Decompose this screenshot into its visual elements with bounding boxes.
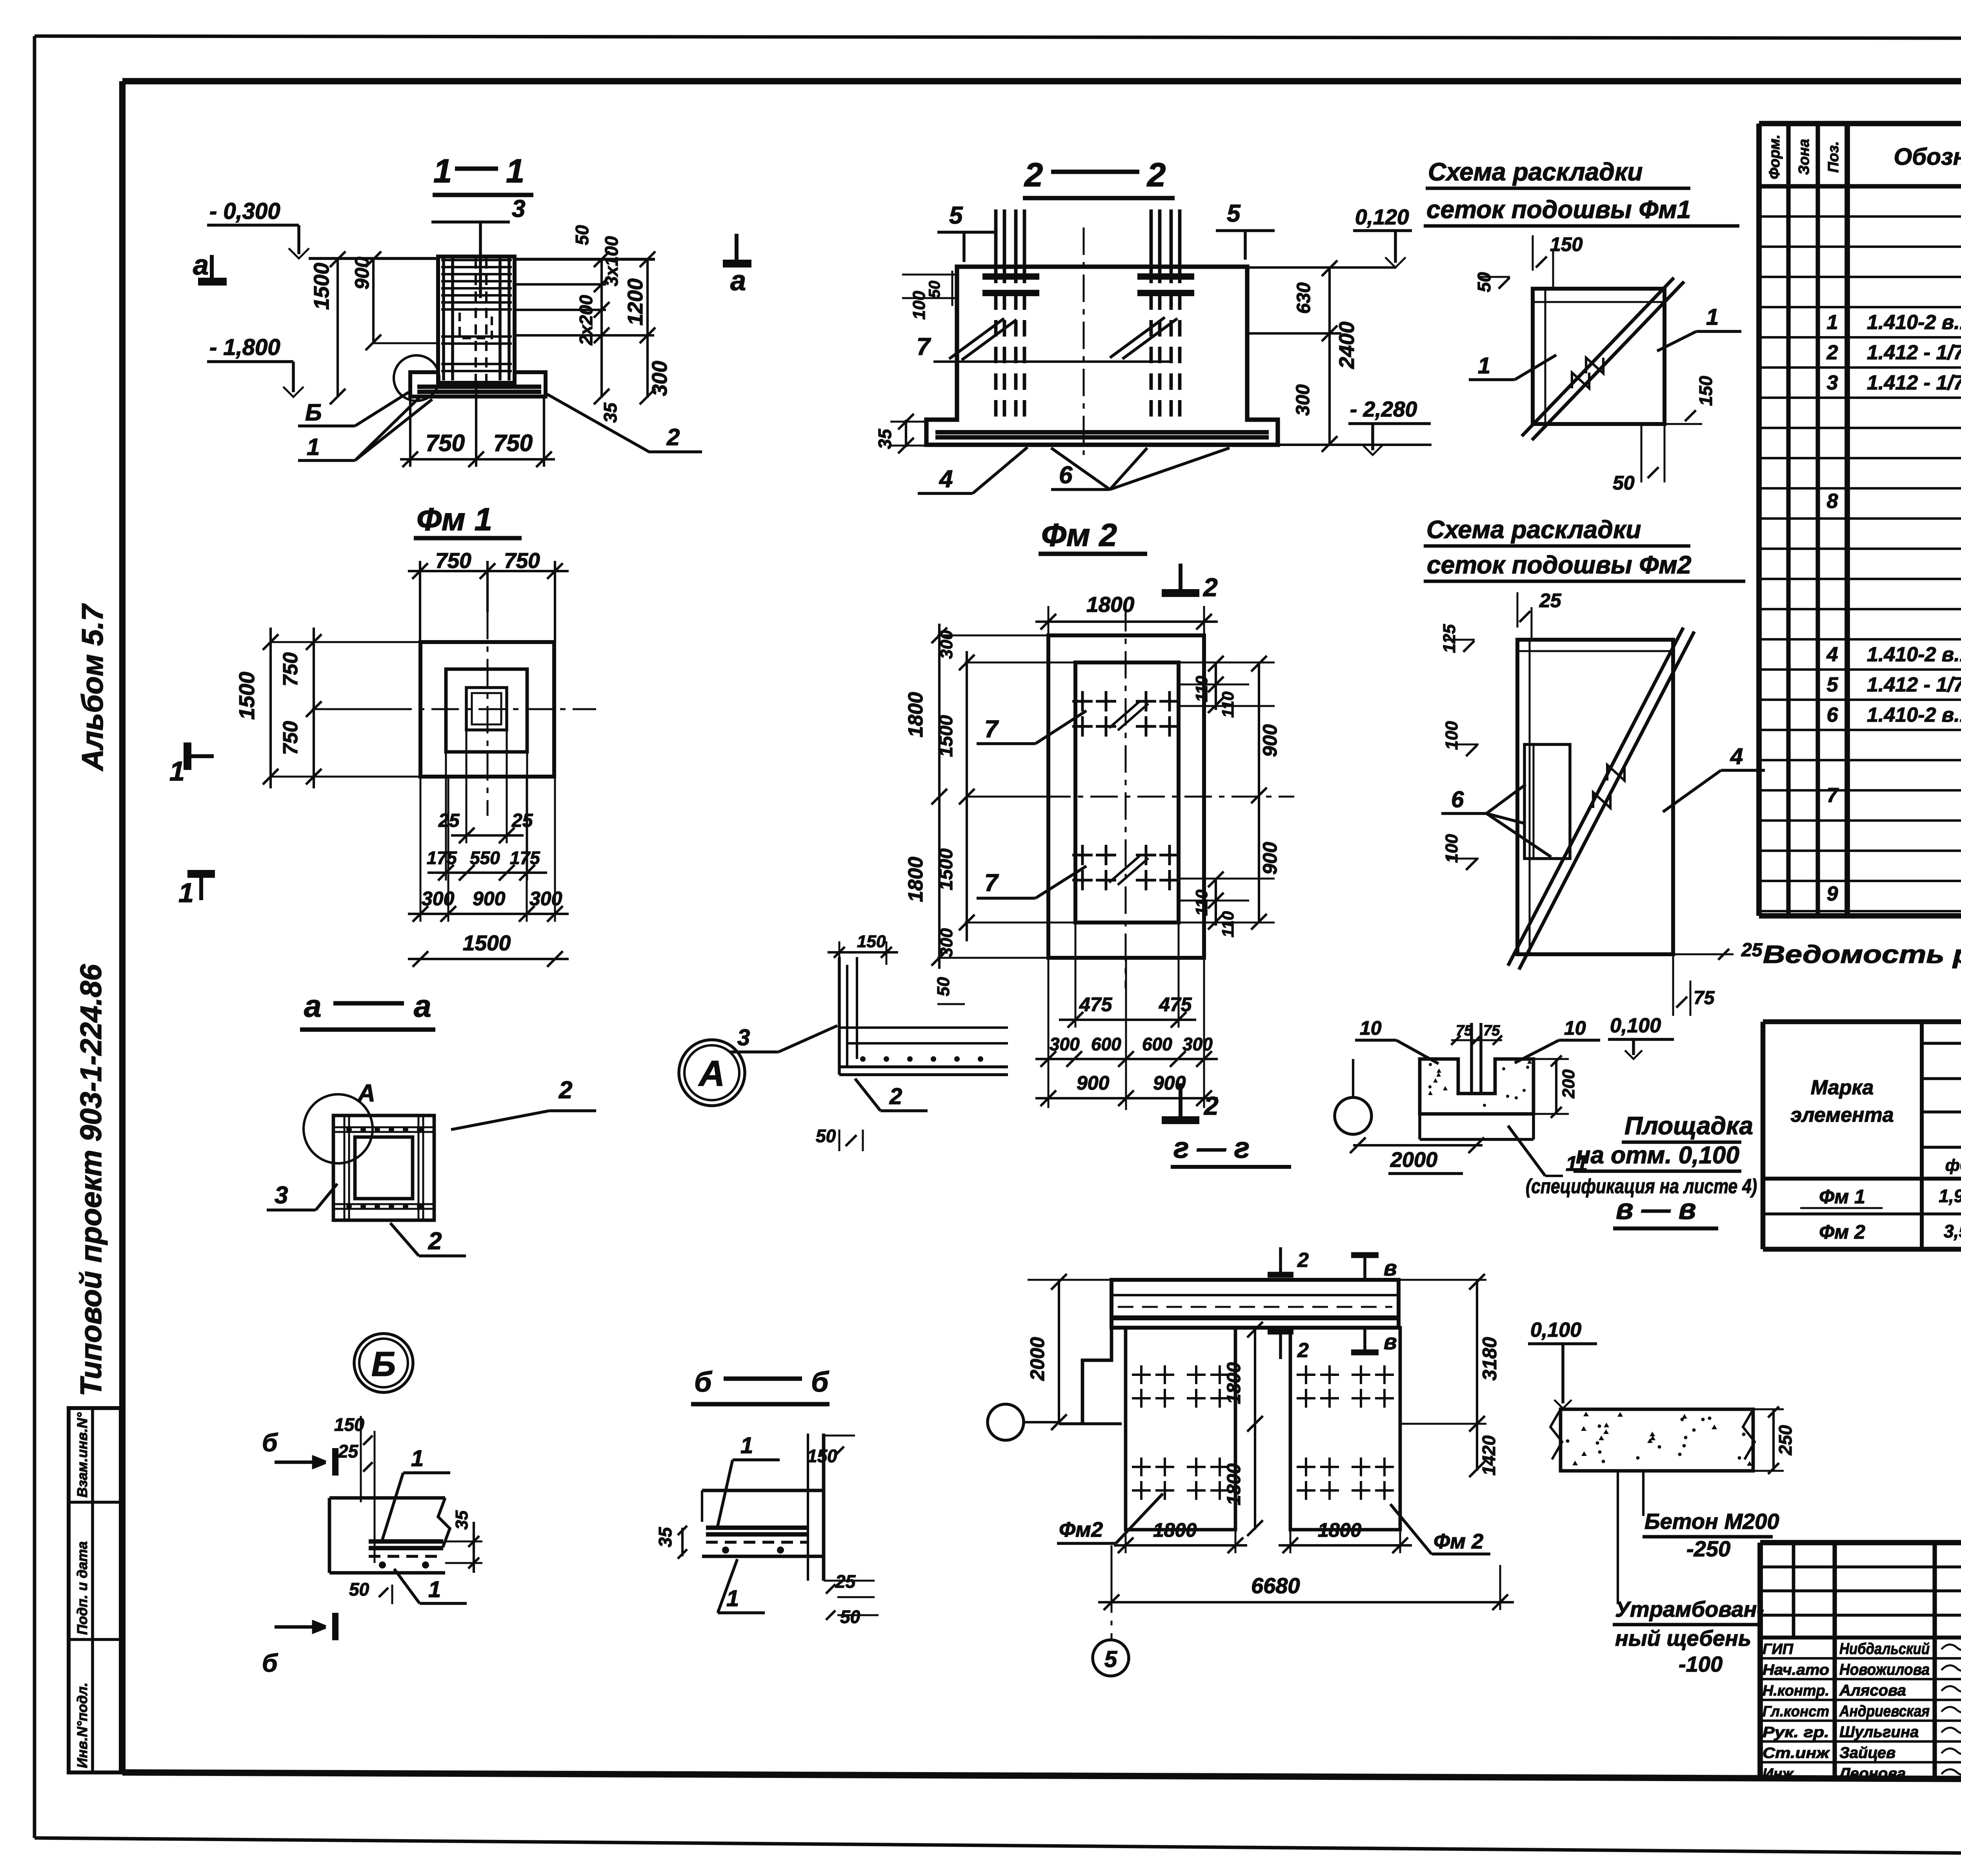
svg-text:550: 550 — [470, 848, 500, 868]
svg-text:2: 2 — [1146, 156, 1166, 194]
svg-text:75: 75 — [1694, 988, 1715, 1008]
svg-text:475: 475 — [1159, 993, 1192, 1015]
svg-text:6: 6 — [1059, 462, 1073, 489]
svg-text:6680: 6680 — [1251, 1573, 1300, 1598]
svg-text:в: в — [1384, 1256, 1397, 1280]
left margin stamp boxes — [69, 1408, 121, 1772]
svg-text:750: 750 — [493, 430, 533, 456]
svg-text:-250: -250 — [1686, 1536, 1730, 1561]
svg-text:1,95: 1,95 — [1939, 1186, 1961, 1206]
specification table — [1759, 121, 1961, 126]
svg-text:1.410-2 в.1: 1.410-2 в.1 — [1867, 311, 1961, 334]
svg-text:Утрамбован-: Утрамбован- — [1615, 1597, 1764, 1621]
svg-text:100: 100 — [1442, 721, 1461, 750]
svg-text:1: 1 — [411, 1446, 424, 1471]
svg-text:Альбом 5.7: Альбом 5.7 — [76, 603, 109, 772]
svg-text:на отм. 0,100: на отм. 0,100 — [1576, 1142, 1739, 1169]
svg-text:35: 35 — [655, 1527, 675, 1547]
svg-text:1: 1 — [726, 1586, 739, 1611]
svg-text:50: 50 — [840, 1607, 860, 1627]
svg-text:Новожилова: Новожилова — [1839, 1661, 1930, 1678]
svg-text:6: 6 — [1827, 704, 1839, 726]
svg-text:150: 150 — [1550, 233, 1583, 255]
svg-text:2х200: 2х200 — [576, 295, 596, 346]
svg-text:Фм 2: Фм 2 — [1819, 1221, 1865, 1243]
2-2 body — [926, 267, 1278, 445]
mid dim 1800 1800 — [1254, 1328, 1256, 1530]
svg-text:10: 10 — [1564, 1017, 1586, 1039]
section marker 1 left — [184, 742, 191, 770]
svg-text:50: 50 — [572, 225, 592, 245]
leader 2 — [547, 394, 702, 452]
svg-text:0,100: 0,100 — [1610, 1014, 1661, 1037]
svg-text:3: 3 — [275, 1182, 288, 1209]
svg-text:1.412 - 1/77 в.3: 1.412 - 1/77 в.3 — [1867, 341, 1961, 364]
svg-text:в: в — [1384, 1329, 1397, 1354]
svg-text:1500: 1500 — [463, 931, 511, 955]
right dims 3180 1420 — [1400, 1279, 1486, 1281]
svg-text:1: 1 — [169, 756, 185, 786]
svg-text:25: 25 — [511, 810, 533, 831]
svg-text:б: б — [694, 1367, 713, 1398]
svg-text:1: 1 — [740, 1433, 753, 1458]
svg-text:2: 2 — [1024, 156, 1043, 194]
svg-text:Обозначение: Обозначение — [1894, 144, 1961, 170]
svg-text:1200: 1200 — [624, 278, 647, 326]
svg-text:Б: Б — [371, 1345, 396, 1383]
svg-text:а: а — [730, 265, 746, 297]
svg-text:50: 50 — [934, 977, 953, 996]
svg-text:25: 25 — [1539, 590, 1562, 611]
svg-text:300: 300 — [648, 361, 671, 396]
Б detail marker б bottom — [275, 1622, 326, 1632]
svg-text:Ведомость расхода стали на оди: Ведомость расхода стали на один элемент,… — [1763, 940, 1961, 968]
svg-text:4: 4 — [1826, 643, 1838, 666]
svg-text:35: 35 — [600, 402, 620, 423]
svg-text:- 2,280: - 2,280 — [1350, 397, 1417, 421]
svg-text:Нач.ато: Нач.ато — [1763, 1662, 1829, 1678]
svg-text:Взам.инв.N°: Взам.инв.N° — [74, 1412, 90, 1498]
svg-text:3,5: 3,5 — [1944, 1221, 1961, 1241]
svg-text:1.410-2 в.1: 1.410-2 в.1 — [1867, 643, 1961, 666]
svg-text:25: 25 — [338, 1441, 359, 1461]
бетон М200 strip — [1561, 1409, 1753, 1471]
щебень label — [1617, 1471, 1619, 1604]
marker в bottom — [1363, 1328, 1366, 1352]
bolt in pocket — [1470, 1023, 1473, 1093]
svg-text:900: 900 — [473, 888, 506, 910]
section marker a right — [735, 234, 739, 262]
svg-text:Марка: Марка — [1811, 1076, 1874, 1099]
svg-text:1420: 1420 — [1479, 1435, 1499, 1476]
svg-text:1800: 1800 — [1224, 1362, 1244, 1404]
А detail dims — [839, 941, 840, 957]
right block — [1290, 1328, 1400, 1530]
svg-text:Ст.инж: Ст.инж — [1763, 1745, 1830, 1761]
svg-text:1: 1 — [1827, 311, 1838, 334]
svg-text:2: 2 — [1203, 1091, 1219, 1120]
2-2 right dims — [1247, 266, 1396, 269]
svg-text:900: 900 — [1259, 724, 1281, 757]
svg-text:750: 750 — [279, 721, 302, 755]
dim 250 — [1753, 1408, 1784, 1410]
svg-text:50: 50 — [349, 1579, 369, 1599]
svg-text:7: 7 — [984, 870, 999, 897]
svg-text:ГИП: ГИП — [1763, 1641, 1794, 1658]
svg-text:А: А — [357, 1080, 375, 1107]
svg-text:1800: 1800 — [904, 857, 927, 902]
svg-text:- 0,300: - 0,300 — [209, 198, 280, 224]
svg-text:Алясова: Алясова — [1839, 1682, 1906, 1699]
svg-text:2: 2 — [1297, 1249, 1309, 1272]
svg-text:Леонова: Леонова — [1838, 1765, 1906, 1782]
а-а detail circle — [304, 1094, 373, 1163]
svg-text:175: 175 — [427, 848, 457, 868]
svg-text:7: 7 — [1827, 784, 1839, 807]
svg-text:3: 3 — [1827, 371, 1838, 394]
б-б corner detail — [702, 1489, 824, 1492]
svg-text:900: 900 — [1259, 842, 1281, 875]
section marker 1 bottom — [187, 870, 215, 878]
svg-text:5: 5 — [1827, 673, 1839, 696]
svg-text:300: 300 — [1182, 1034, 1213, 1054]
svg-text:110: 110 — [1219, 691, 1237, 718]
Б detail beam — [329, 1496, 445, 1500]
svg-text:750: 750 — [426, 430, 465, 456]
схема Фм2 inner mesh — [1524, 744, 1570, 859]
steel consumption table — [1763, 1019, 1961, 1024]
схема Фм1 diagonal — [1522, 278, 1674, 436]
svg-text:3: 3 — [737, 1025, 750, 1050]
svg-text:1: 1 — [506, 153, 524, 190]
Б circle — [354, 1334, 413, 1392]
Фм2 plan top dim — [1048, 606, 1050, 637]
svg-text:150: 150 — [1695, 376, 1716, 406]
Фм2 plan section marker 2 top — [1179, 564, 1182, 593]
svg-text:Фм 1: Фм 1 — [1819, 1186, 1865, 1208]
svg-text:сеток подошвы Фм2: сеток подошвы Фм2 — [1427, 551, 1691, 579]
svg-text:150: 150 — [857, 932, 886, 951]
svg-text:4: 4 — [1730, 744, 1743, 769]
left step — [1082, 1328, 1111, 1396]
svg-text:9: 9 — [1827, 883, 1838, 905]
2-2 centerline — [1083, 227, 1085, 455]
svg-text:Бетон М200: Бетон М200 — [1644, 1509, 1779, 1534]
схема Фм2 diagonal — [1508, 628, 1683, 966]
svg-text:50: 50 — [1613, 472, 1635, 494]
1-1 footing — [410, 372, 546, 397]
svg-text:2: 2 — [1826, 341, 1838, 364]
svg-text:а: а — [304, 988, 322, 1023]
svg-text:750: 750 — [504, 548, 540, 573]
dims 75 75 — [1451, 1039, 1502, 1041]
svg-text:7: 7 — [984, 716, 999, 743]
1-1 ground line — [309, 257, 438, 260]
svg-text:А: А — [698, 1054, 725, 1094]
svg-text:2: 2 — [666, 424, 680, 450]
svg-text:1800: 1800 — [1153, 1519, 1197, 1541]
svg-text:- 1,800: - 1,800 — [209, 335, 280, 360]
Фм1 plan bottom dims — [466, 730, 468, 843]
svg-text:ный щебень: ный щебень — [1615, 1626, 1751, 1650]
svg-text:600: 600 — [1091, 1034, 1121, 1054]
svg-text:0,120: 0,120 — [1355, 205, 1409, 229]
section marker a left — [210, 255, 214, 279]
Фм2 plan section marker 2 bottom — [1179, 1083, 1182, 1120]
бетон detail block — [1420, 1059, 1534, 1114]
svg-text:300: 300 — [937, 630, 956, 659]
svg-text:2: 2 — [1202, 573, 1218, 602]
svg-text:а: а — [414, 988, 431, 1023]
svg-text:а: а — [193, 249, 209, 281]
svg-text:75: 75 — [1483, 1023, 1500, 1039]
svg-text:Форм.: Форм. — [1766, 135, 1783, 179]
svg-text:3: 3 — [512, 195, 525, 222]
svg-text:сеток подошвы Фм1: сеток подошвы Фм1 — [1426, 195, 1691, 224]
svg-text:1800: 1800 — [1224, 1463, 1244, 1505]
bottom dims 1800 — [1125, 1530, 1127, 1553]
svg-text:1: 1 — [433, 153, 452, 190]
svg-text:1: 1 — [1478, 353, 1490, 378]
svg-text:300: 300 — [529, 888, 562, 910]
svg-text:110: 110 — [1192, 676, 1211, 702]
svg-text:750: 750 — [279, 652, 302, 686]
svg-text:2: 2 — [1297, 1339, 1309, 1362]
strip break marks — [1550, 1409, 1562, 1459]
svg-text:2: 2 — [889, 1084, 902, 1109]
svg-text:8: 8 — [1827, 490, 1838, 513]
left block — [1126, 1328, 1235, 1530]
svg-text:элемента: элемента — [1790, 1104, 1894, 1126]
svg-text:1800: 1800 — [1086, 592, 1135, 617]
dim 200 — [1534, 1058, 1569, 1060]
Б detail plate — [369, 1539, 443, 1543]
svg-text:900: 900 — [1077, 1072, 1110, 1094]
svg-text:Рук. гр.: Рук. гр. — [1763, 1724, 1829, 1741]
площадка beam — [1111, 1280, 1399, 1328]
Фм1 plan top dim — [419, 561, 421, 642]
svg-text:Зайцев: Зайцев — [1839, 1744, 1896, 1761]
svg-text:1.412 - 1/77 в.3: 1.412 - 1/77 в.3 — [1867, 673, 1961, 696]
Фм2 plan left dims — [937, 635, 1050, 637]
5 circle — [1111, 1545, 1113, 1639]
marker 2 top — [1279, 1247, 1282, 1275]
схема Фм1 square — [1533, 289, 1664, 424]
svg-text:750: 750 — [435, 548, 471, 573]
svg-text:3180: 3180 — [1479, 1337, 1501, 1381]
Фм1 plan centerlines — [384, 708, 596, 710]
svg-text:250: 250 — [1775, 1425, 1795, 1456]
б-б plate — [706, 1525, 808, 1530]
svg-text:2400: 2400 — [1335, 322, 1359, 369]
svg-text:10: 10 — [1360, 1017, 1382, 1039]
Фм2 plan bottom dims — [1075, 923, 1077, 1028]
svg-text:1: 1 — [428, 1577, 441, 1602]
svg-text:Типовой проект 903-1-224.86: Типовой проект 903-1-224.86 — [75, 964, 108, 1396]
svg-text:Фм 1: Фм 1 — [417, 502, 492, 537]
marker в top — [1363, 1255, 1366, 1280]
Фм1 plan left dims — [271, 641, 422, 643]
А detail circle — [679, 1040, 745, 1106]
svg-text:1.410-2 в.1: 1.410-2 в.1 — [1867, 704, 1961, 726]
svg-text:300: 300 — [422, 888, 455, 910]
svg-text:2000: 2000 — [1390, 1148, 1437, 1172]
svg-text:2000: 2000 — [1026, 1337, 1048, 1381]
г circle — [1335, 1097, 1372, 1134]
Фм2 plan centerlines — [996, 796, 1294, 798]
1-1 column — [438, 257, 515, 383]
svg-text:2: 2 — [558, 1077, 572, 1104]
svg-text:4: 4 — [939, 466, 953, 493]
svg-text:Инв.N°подл.: Инв.N°подл. — [74, 1683, 90, 1768]
svg-text:2: 2 — [428, 1228, 442, 1255]
svg-text:1500: 1500 — [936, 848, 957, 890]
svg-text:300: 300 — [1050, 1034, 1080, 1054]
svg-text:Н.контр.: Н.контр. — [1763, 1683, 1829, 1699]
svg-text:(спецификация на листе 4): (спецификация на листе 4) — [1526, 1175, 1757, 1198]
svg-text:Фм2: Фм2 — [1059, 1518, 1103, 1541]
svg-text:1500: 1500 — [936, 715, 957, 757]
svg-text:200: 200 — [1559, 1069, 1578, 1099]
svg-text:Площадка: Площадка — [1624, 1112, 1753, 1140]
svg-text:150: 150 — [807, 1446, 837, 1466]
svg-text:0,100: 0,100 — [1530, 1319, 1581, 1341]
svg-text:6: 6 — [1451, 787, 1464, 812]
svg-text:50: 50 — [816, 1126, 836, 1146]
svg-text:75: 75 — [1456, 1023, 1473, 1039]
схема Фм2 rect — [1517, 640, 1673, 954]
Фм1 plan outline — [420, 642, 554, 777]
Б detail dim 35 — [445, 1541, 482, 1543]
svg-text:б: б — [262, 1649, 278, 1677]
svg-text:50: 50 — [926, 281, 943, 298]
svg-text:5: 5 — [1227, 200, 1241, 227]
svg-text:Шульгина: Шульгина — [1839, 1723, 1919, 1741]
dim 2000 left — [1058, 1280, 1060, 1424]
svg-text:1500: 1500 — [235, 671, 259, 720]
svg-text:300: 300 — [937, 928, 956, 957]
svg-text:1500: 1500 — [310, 263, 333, 310]
svg-text:25: 25 — [1741, 940, 1763, 961]
svg-text:-100: -100 — [1679, 1652, 1723, 1676]
svg-text:Подп. и дата: Подп. и дата — [74, 1541, 90, 1635]
svg-text:Б: Б — [305, 399, 322, 426]
svg-text:1800: 1800 — [904, 692, 927, 737]
svg-text:Схема раскладки: Схема раскладки — [1426, 515, 1641, 544]
svg-text:1800: 1800 — [1318, 1519, 1361, 1541]
svg-text:г — г: г — г — [1173, 1132, 1250, 1164]
dim 2000 — [1353, 1144, 1483, 1146]
svg-text:175: 175 — [510, 848, 540, 868]
svg-text:3х100: 3х100 — [601, 236, 622, 286]
svg-text:Зона: Зона — [1796, 139, 1812, 175]
1-1 left dims — [337, 258, 339, 398]
svg-text:Инж.: Инж. — [1763, 1766, 1797, 1782]
1-1 right dims — [515, 283, 606, 286]
бетон label — [1642, 1471, 1644, 1516]
svg-text:35: 35 — [452, 1510, 471, 1530]
А detail corner — [838, 957, 841, 1075]
svg-text:1: 1 — [307, 434, 320, 460]
2-2 anchor bolts — [994, 209, 998, 267]
svg-text:110: 110 — [1219, 911, 1237, 937]
svg-text:900: 900 — [351, 257, 373, 289]
svg-text:110: 110 — [1192, 890, 1211, 916]
svg-text:Гл.конст: Гл.конст — [1763, 1703, 1829, 1720]
Фм2 plan right dims — [1179, 662, 1275, 664]
detail circle Б — [394, 355, 439, 401]
Г circle — [988, 1404, 1024, 1440]
svg-text:Андриевская: Андриевская — [1839, 1703, 1930, 1720]
Фм2 plan break marks — [1109, 701, 1140, 728]
title block — [1760, 1540, 1961, 1545]
2-2 break symbols — [949, 318, 1004, 359]
svg-text:300: 300 — [1293, 384, 1313, 416]
svg-text:50: 50 — [1474, 272, 1494, 292]
dim 6680 — [1111, 1565, 1113, 1610]
svg-text:600: 600 — [1142, 1034, 1172, 1054]
svg-text:5: 5 — [1104, 1647, 1117, 1672]
svg-text:630: 630 — [1293, 282, 1314, 314]
Фм2 plan outline — [1048, 635, 1204, 958]
Фм2 plan bolts — [1072, 691, 1093, 711]
2-2 slab mesh — [935, 430, 1269, 434]
svg-text:Нибдальский: Нибдальский — [1839, 1640, 1930, 1658]
svg-text:б: б — [262, 1428, 278, 1457]
svg-text:Фм 2: Фм 2 — [1433, 1530, 1483, 1553]
svg-text:Фм 2: Фм 2 — [1041, 517, 1117, 553]
svg-text:1: 1 — [178, 877, 194, 908]
svg-text:1: 1 — [1706, 304, 1719, 330]
1-1 bottom dim 750 750 — [409, 397, 411, 467]
svg-text:Поз.: Поз. — [1825, 141, 1842, 173]
svg-text:Схема раскладки: Схема раскладки — [1428, 158, 1643, 186]
svg-text:5: 5 — [949, 202, 963, 229]
svg-text:б: б — [811, 1367, 830, 1398]
svg-text:ф6: ф6 — [1945, 1156, 1961, 1174]
а-а square — [333, 1115, 434, 1220]
svg-text:475: 475 — [1079, 993, 1113, 1015]
sheet outer border — [35, 36, 1961, 39]
svg-text:7: 7 — [917, 333, 931, 360]
svg-text:1.412 - 1/77 в.3: 1.412 - 1/77 в.3 — [1867, 371, 1961, 394]
svg-text:125: 125 — [1440, 624, 1459, 653]
marker 2 bottom — [1279, 1332, 1282, 1359]
